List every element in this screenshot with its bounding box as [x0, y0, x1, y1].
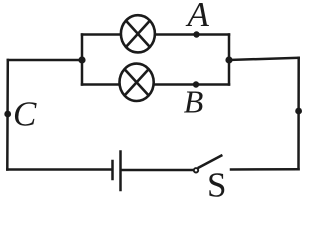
svg-text:S: S	[207, 166, 226, 198]
svg-text:A: A	[186, 0, 210, 34]
svg-text:C: C	[13, 95, 37, 134]
svg-text:B: B	[184, 84, 204, 120]
